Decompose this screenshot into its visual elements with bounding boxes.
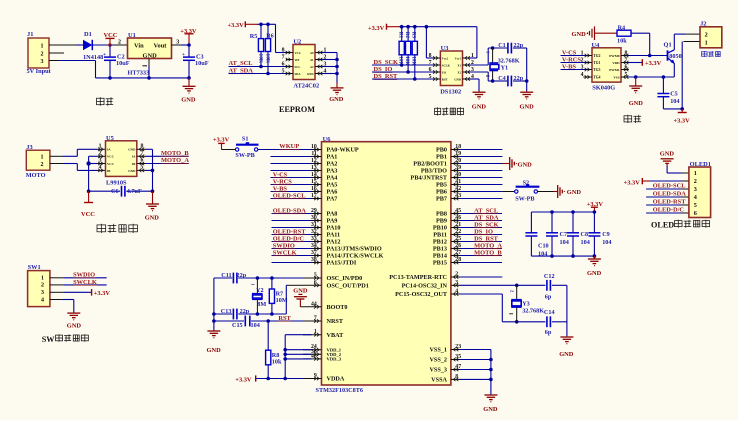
svg-text:AT_SDA: AT_SDA <box>474 214 499 221</box>
svg-text:7: 7 <box>314 316 317 322</box>
svg-text:PB5: PB5 <box>436 182 447 189</box>
svg-text:+3.3V: +3.3V <box>645 60 662 67</box>
svg-text:PA0-WKUP: PA0-WKUP <box>327 147 359 154</box>
svg-text:PB6: PB6 <box>436 189 447 196</box>
svg-text:VCC: VCC <box>107 155 115 159</box>
svg-text:+3.3V: +3.3V <box>235 376 252 383</box>
svg-text:1: 1 <box>41 43 44 49</box>
svg-text:PB15: PB15 <box>433 260 447 267</box>
svg-text:GND: GND <box>207 347 222 354</box>
svg-text:PB2/BOOT1: PB2/BOOT1 <box>413 161 447 168</box>
svg-text:TG3: TG3 <box>593 68 600 72</box>
svg-text:11: 11 <box>311 151 317 157</box>
svg-text:PA2: PA2 <box>327 161 338 168</box>
svg-text:GND: GND <box>629 100 644 107</box>
svg-text:C15: C15 <box>232 322 243 329</box>
svg-text:PA11: PA11 <box>327 232 341 239</box>
svg-text:VCC: VCC <box>81 211 95 218</box>
svg-text:PB3/TDO: PB3/TDO <box>421 168 447 175</box>
svg-text:1: 1 <box>41 276 44 282</box>
svg-text:DS_IO: DS_IO <box>474 228 493 235</box>
svg-text:DS_RST: DS_RST <box>474 235 499 242</box>
svg-text:GND: GND <box>483 406 498 413</box>
svg-text:OLED-D/C: OLED-D/C <box>273 235 305 242</box>
svg-text:R1: R1 <box>398 32 404 39</box>
svg-text:5: 5 <box>282 68 285 74</box>
svg-text:STM32F103C8T6: STM32F103C8T6 <box>316 387 363 394</box>
svg-text:Vcc2: Vcc2 <box>442 56 449 60</box>
svg-text:PB9: PB9 <box>436 218 447 225</box>
svg-text:OLED1: OLED1 <box>690 161 711 168</box>
svg-text:+3.3V: +3.3V <box>180 28 197 35</box>
svg-text:PA6: PA6 <box>327 189 338 196</box>
svg-text:A2: A2 <box>310 65 314 69</box>
svg-text:10k: 10k <box>617 38 627 45</box>
svg-text:SWDIO: SWDIO <box>73 272 95 279</box>
svg-text:6: 6 <box>429 67 432 73</box>
svg-text:OLED: OLED <box>651 221 674 230</box>
svg-text:WKUP: WKUP <box>279 143 299 150</box>
svg-text:GND: GND <box>329 96 344 103</box>
svg-text:10K: 10K <box>257 54 263 64</box>
svg-text:PA14/JTCK/SWCLK: PA14/JTCK/SWCLK <box>327 253 384 260</box>
svg-text:38: 38 <box>311 257 317 263</box>
svg-text:I/O: I/O <box>442 70 447 74</box>
svg-text:8M: 8M <box>257 301 266 308</box>
svg-text:AT_SCL: AT_SCL <box>474 207 498 214</box>
svg-text:R3: R3 <box>411 32 417 39</box>
svg-text:SWDIO: SWDIO <box>273 242 295 249</box>
svg-text:PB1: PB1 <box>436 154 447 161</box>
svg-text:1: 1 <box>41 155 44 161</box>
svg-text:32: 32 <box>311 229 317 235</box>
svg-text:MOTO: MOTO <box>26 172 46 179</box>
svg-text:J1: J1 <box>27 31 33 38</box>
svg-text:7: 7 <box>429 60 432 66</box>
svg-text:VDDA: VDDA <box>327 376 345 383</box>
svg-text:D1: D1 <box>84 31 92 38</box>
svg-text:SW-PB: SW-PB <box>515 196 534 203</box>
svg-text:GND: GND <box>128 148 136 152</box>
svg-text:PB14: PB14 <box>433 253 447 260</box>
svg-text:44: 44 <box>311 301 317 307</box>
svg-text:SCLK: SCLK <box>442 63 451 67</box>
svg-text:1: 1 <box>705 39 708 46</box>
svg-text:10k: 10k <box>272 359 282 366</box>
svg-text:3: 3 <box>694 186 697 193</box>
svg-text:U4: U4 <box>592 42 601 49</box>
svg-text:+: + <box>182 52 185 58</box>
svg-text:2: 2 <box>694 178 697 185</box>
svg-text:PA12: PA12 <box>327 239 341 246</box>
svg-text:16: 16 <box>311 186 317 192</box>
svg-text:PB8: PB8 <box>436 211 447 218</box>
svg-text:GND: GND <box>660 151 675 158</box>
svg-text:PB13: PB13 <box>433 246 447 253</box>
svg-text:C1: C1 <box>498 42 506 49</box>
svg-text:C8: C8 <box>581 231 589 238</box>
svg-text:C9: C9 <box>602 231 610 238</box>
svg-text:PC13-TAMPER-RTC: PC13-TAMPER-RTC <box>389 274 447 281</box>
svg-text:WP: WP <box>295 58 300 62</box>
svg-text:8: 8 <box>282 47 285 53</box>
svg-text:15: 15 <box>311 179 317 185</box>
svg-text:22p: 22p <box>240 308 250 315</box>
svg-text:37: 37 <box>311 250 317 256</box>
svg-text:X2: X2 <box>457 70 461 74</box>
svg-text:GND: GND <box>472 103 487 110</box>
svg-text:17: 17 <box>311 193 317 199</box>
svg-text:SDA: SDA <box>295 72 302 76</box>
svg-text:S1: S1 <box>242 136 249 143</box>
svg-text:PB4/JNTRST: PB4/JNTRST <box>411 175 448 182</box>
svg-text:1: 1 <box>694 170 697 177</box>
svg-text:+3.3V: +3.3V <box>228 22 245 29</box>
svg-text:TG4: TG4 <box>593 75 600 79</box>
svg-text:DS_SCK: DS_SCK <box>474 221 499 228</box>
svg-text:3: 3 <box>41 59 44 65</box>
svg-text:PA9: PA9 <box>327 218 338 225</box>
svg-text:104: 104 <box>602 239 611 246</box>
svg-text:PWM0: PWM0 <box>609 54 620 58</box>
svg-text:C10: C10 <box>538 243 549 250</box>
svg-text:2: 2 <box>455 272 458 278</box>
svg-text:14: 14 <box>311 172 317 178</box>
svg-text:C5: C5 <box>670 91 678 98</box>
svg-text:C6: C6 <box>111 188 119 195</box>
svg-text:PA5: PA5 <box>327 182 338 189</box>
svg-text:4: 4 <box>581 72 584 78</box>
svg-text:+3.3V: +3.3V <box>624 180 641 187</box>
svg-text:30: 30 <box>311 215 317 221</box>
svg-text:8050: 8050 <box>669 53 681 60</box>
svg-text:C11: C11 <box>221 272 231 279</box>
svg-text:PA3: PA3 <box>327 168 338 175</box>
svg-text:X1: X1 <box>457 63 461 67</box>
svg-text:2: 2 <box>118 40 121 46</box>
svg-text:2: 2 <box>705 32 708 39</box>
svg-text:+: + <box>103 52 106 58</box>
svg-text:Q1: Q1 <box>664 42 672 49</box>
svg-text:TG1: TG1 <box>593 61 600 65</box>
svg-text:C12: C12 <box>544 273 555 280</box>
svg-text:4: 4 <box>694 194 697 201</box>
svg-text:VCC: VCC <box>295 51 302 55</box>
svg-text:SCL: SCL <box>295 65 301 69</box>
svg-text:R5: R5 <box>250 33 258 40</box>
svg-text:3: 3 <box>455 280 458 286</box>
svg-text:GND: GND <box>143 53 158 60</box>
svg-text:PB10: PB10 <box>433 225 447 232</box>
svg-text:U2: U2 <box>293 39 301 46</box>
svg-text:SW: SW <box>42 335 56 344</box>
svg-text:AT24C02: AT24C02 <box>293 82 319 89</box>
svg-text:32.768K: 32.768K <box>522 307 544 314</box>
svg-text:PB12: PB12 <box>433 239 447 246</box>
svg-text:104: 104 <box>538 251 547 258</box>
svg-text:9: 9 <box>314 373 317 379</box>
svg-text:SWCLK: SWCLK <box>73 279 97 286</box>
svg-text:R2: R2 <box>404 32 410 39</box>
svg-text:TG2: TG2 <box>593 54 600 58</box>
svg-text:GND: GND <box>181 97 196 104</box>
svg-text:RST: RST <box>442 77 448 81</box>
svg-text:SK040G: SK040G <box>592 85 615 92</box>
svg-text:PA10: PA10 <box>327 225 341 232</box>
svg-text:6p: 6p <box>545 329 552 336</box>
svg-text:10K: 10K <box>411 56 417 65</box>
svg-text:12: 12 <box>311 158 317 164</box>
svg-text:Vcc1: Vcc1 <box>455 56 462 60</box>
svg-text:22p: 22p <box>237 272 247 279</box>
svg-text:V-RCS: V-RCS <box>273 178 292 185</box>
svg-text:6p: 6p <box>545 293 552 300</box>
svg-text:Vout: Vout <box>154 43 168 50</box>
svg-text:A1: A1 <box>310 58 314 62</box>
svg-text:GND: GND <box>520 103 535 110</box>
svg-text:+3.3V: +3.3V <box>674 118 691 125</box>
svg-text:13: 13 <box>311 165 317 171</box>
svg-text:OLED-RST: OLED-RST <box>273 228 306 235</box>
svg-text:104: 104 <box>670 98 679 105</box>
svg-text:33: 33 <box>311 236 317 242</box>
svg-text:34: 34 <box>311 243 317 249</box>
svg-text:VSSA: VSSA <box>431 377 447 384</box>
svg-text:VSS_1: VSS_1 <box>429 347 447 354</box>
svg-text:L9910S: L9910S <box>106 180 127 187</box>
svg-text:+3.3V: +3.3V <box>94 290 111 297</box>
svg-text:4: 4 <box>455 289 458 295</box>
svg-text:8: 8 <box>455 374 458 380</box>
svg-text:SW-PB: SW-PB <box>235 152 254 159</box>
svg-text:MOTO_A: MOTO_A <box>161 157 189 164</box>
svg-text:10K: 10K <box>404 56 410 65</box>
svg-text:5: 5 <box>429 74 432 80</box>
svg-text:GND: GND <box>587 270 602 277</box>
svg-text:5: 5 <box>314 273 317 279</box>
svg-text:10K: 10K <box>398 56 404 65</box>
svg-text:PC14-OSC32_IN: PC14-OSC32_IN <box>402 283 448 290</box>
svg-text:VSS_2: VSS_2 <box>429 357 447 364</box>
svg-text:OSC_OUT/PD1: OSC_OUT/PD1 <box>327 283 369 290</box>
svg-text:22p: 22p <box>514 42 524 49</box>
svg-text:U1: U1 <box>128 32 136 39</box>
svg-text:GND: GND <box>128 169 136 173</box>
svg-text:6: 6 <box>314 280 317 286</box>
svg-text:22p: 22p <box>514 75 524 82</box>
svg-text:2: 2 <box>41 283 44 289</box>
svg-text:RST: RST <box>278 315 291 322</box>
svg-text:104: 104 <box>251 322 260 329</box>
svg-text:8: 8 <box>429 53 432 59</box>
svg-text:5V Input: 5V Input <box>27 68 52 75</box>
svg-text:HT7333: HT7333 <box>128 70 150 77</box>
svg-text:Vin: Vin <box>134 43 144 50</box>
svg-text:OSC_IN/PD0: OSC_IN/PD0 <box>327 275 363 282</box>
svg-text:BOOT0: BOOT0 <box>327 304 348 311</box>
svg-text:U5: U5 <box>106 135 114 142</box>
svg-text:PA13/JTMS/SWDIO: PA13/JTMS/SWDIO <box>327 246 382 253</box>
svg-text:2: 2 <box>41 162 44 168</box>
svg-text:4.7uF: 4.7uF <box>127 188 142 195</box>
svg-text:10: 10 <box>311 144 317 150</box>
svg-text:VSS: VSS <box>613 75 619 79</box>
svg-text:4: 4 <box>41 297 44 303</box>
svg-text:6: 6 <box>282 61 285 67</box>
svg-text:7: 7 <box>282 54 285 60</box>
svg-text:31: 31 <box>311 222 317 228</box>
svg-text:10K: 10K <box>264 54 270 64</box>
svg-text:OLED-SCL: OLED-SCL <box>273 192 306 199</box>
svg-text:PWM1: PWM1 <box>609 68 620 72</box>
svg-text:MOTO_B: MOTO_B <box>474 249 502 256</box>
svg-text:U3: U3 <box>441 45 449 52</box>
svg-text:2: 2 <box>41 51 44 57</box>
svg-text:R6: R6 <box>266 33 274 40</box>
svg-text:J2: J2 <box>700 21 706 28</box>
svg-text:PC15-OSC32_OUT: PC15-OSC32_OUT <box>395 291 448 298</box>
svg-text:6: 6 <box>694 210 697 217</box>
svg-text:C14: C14 <box>544 309 555 316</box>
svg-text:PA15/JTDI: PA15/JTDI <box>327 260 357 267</box>
svg-text:PB11: PB11 <box>433 232 447 239</box>
svg-text:C13: C13 <box>221 308 232 315</box>
svg-text:DS1302: DS1302 <box>440 89 461 96</box>
svg-text:5: 5 <box>694 202 697 209</box>
svg-text:3: 3 <box>41 290 44 296</box>
svg-text:104: 104 <box>560 239 569 246</box>
svg-text:Y1: Y1 <box>501 65 509 72</box>
svg-text:A0: A0 <box>310 51 314 55</box>
svg-text:48: 48 <box>311 353 317 359</box>
svg-text:+3.3V: +3.3V <box>213 137 230 144</box>
svg-text:NRST: NRST <box>327 318 344 325</box>
svg-text:PB7: PB7 <box>436 196 447 203</box>
svg-text:PA8: PA8 <box>327 211 338 218</box>
svg-text:V-CS: V-CS <box>273 171 288 178</box>
svg-text:PA7: PA7 <box>327 196 338 203</box>
svg-text:SWCLK: SWCLK <box>273 249 297 256</box>
svg-text:10uF: 10uF <box>195 60 209 67</box>
svg-text:VBAT: VBAT <box>327 332 345 339</box>
svg-text:VDD: VDD <box>612 61 620 65</box>
svg-text:GND: GND <box>145 214 160 221</box>
svg-text:PA4: PA4 <box>327 175 338 182</box>
svg-text:10uF: 10uF <box>116 60 130 67</box>
svg-text:GND: GND <box>518 162 533 169</box>
svg-text:PB0: PB0 <box>436 147 447 154</box>
svg-text:32.768K: 32.768K <box>498 57 520 64</box>
svg-text:1: 1 <box>314 329 317 335</box>
svg-text:GND: GND <box>307 72 315 76</box>
svg-text:29: 29 <box>311 208 317 214</box>
svg-text:VCC: VCC <box>107 162 115 166</box>
svg-text:EEPROM: EEPROM <box>279 105 315 114</box>
svg-text:S2: S2 <box>523 180 530 187</box>
svg-text:VSS_3: VSS_3 <box>429 367 447 374</box>
svg-text:GND: GND <box>567 189 582 196</box>
svg-text:104: 104 <box>581 239 590 246</box>
svg-text:PA1: PA1 <box>327 154 338 161</box>
svg-text:C4: C4 <box>498 75 506 82</box>
svg-text:GND: GND <box>559 351 574 358</box>
svg-text:Y2: Y2 <box>256 287 264 294</box>
svg-text:+3.3V: +3.3V <box>368 25 385 32</box>
svg-text:MOTO_B: MOTO_B <box>161 150 189 157</box>
svg-text:OLED-SDA: OLED-SDA <box>273 207 306 214</box>
svg-text:C7: C7 <box>560 231 568 238</box>
svg-text:GND: GND <box>454 77 462 81</box>
svg-text:GND: GND <box>293 288 308 295</box>
svg-text:MOTO_A: MOTO_A <box>474 242 502 249</box>
svg-text:GND: GND <box>67 323 82 330</box>
svg-text:GND: GND <box>572 31 587 38</box>
svg-text:VDD_3: VDD_3 <box>327 357 342 362</box>
svg-text:V-BS: V-BS <box>273 185 288 192</box>
